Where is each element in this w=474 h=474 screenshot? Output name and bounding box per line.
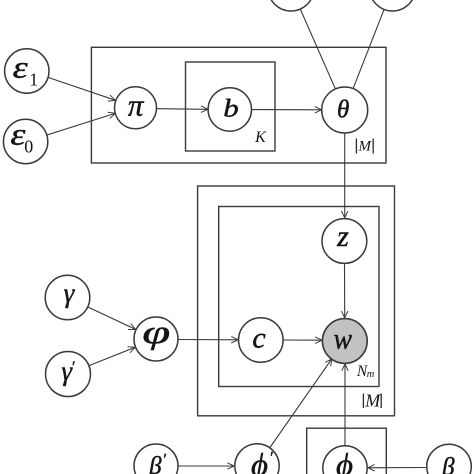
- svg-text:z: z: [336, 220, 349, 253]
- edge pi to b: [157, 108, 208, 111]
- edge theta to z: [344, 133, 346, 218]
- node theta: [322, 87, 368, 133]
- svg-text:b: b: [223, 96, 239, 123]
- node eps1: [5, 49, 49, 93]
- edge varphi to c: [178, 339, 238, 341]
- svg-text:m: m: [367, 369, 375, 380]
- plate top (|M| plate around pi,b,theta): [91, 47, 386, 163]
- svg-text:K: K: [254, 129, 267, 146]
- node gamma: [45, 275, 90, 320]
- label Nm: [356, 363, 375, 380]
- node eps0: [3, 116, 47, 163]
- svg-text:′: ′: [269, 449, 273, 466]
- svg-text:0: 0: [24, 136, 33, 156]
- node phi: [323, 446, 367, 474]
- svg-text:M: M: [364, 390, 381, 410]
- edge top circle B to theta: [353, 9, 384, 88]
- node top circle B (clipped): [370, 0, 416, 11]
- node gamma-prime: [46, 352, 91, 397]
- svg-text:ε: ε: [13, 50, 29, 85]
- edge top circle A to theta: [300, 9, 335, 89]
- edge gamma-prime to varphi: [88, 347, 134, 366]
- edge beta to phi: [368, 467, 426, 469]
- svg-text:w: w: [334, 323, 353, 356]
- edge c to w: [283, 339, 321, 341]
- edge gamma to varphi: [87, 307, 135, 330]
- svg-text:ϕ: ϕ: [251, 446, 268, 474]
- svg-text:1: 1: [29, 69, 38, 89]
- edge phi to w: [344, 364, 346, 446]
- edge eps1 to pi: [47, 77, 115, 100]
- node pi: [115, 87, 157, 129]
- svg-text:β: β: [441, 454, 455, 474]
- svg-text:π: π: [128, 88, 145, 123]
- node beta: [427, 444, 472, 474]
- svg-text:θ: θ: [337, 97, 349, 124]
- svg-text:φ: φ: [142, 315, 170, 351]
- plate bottom (around phi): [307, 428, 387, 474]
- node top circle A (clipped): [268, 0, 314, 11]
- svg-text:′: ′: [162, 451, 166, 468]
- plate middle inner (Nm): [219, 207, 379, 387]
- edge beta-prime to phi-prime: [178, 465, 234, 467]
- plate middle outer (|M|): [198, 186, 395, 416]
- label |M| middle plate: [363, 390, 381, 410]
- svg-text:′: ′: [71, 359, 75, 376]
- node phi-prime: [235, 444, 279, 474]
- node c: [238, 318, 283, 363]
- node z: [322, 219, 367, 264]
- svg-text:c: c: [252, 322, 265, 355]
- edge eps0 to pi: [46, 113, 115, 135]
- svg-text:M: M: [358, 138, 373, 154]
- edge z to w: [344, 264, 346, 318]
- node beta-prime: [134, 444, 178, 474]
- label |M| top plate: [356, 138, 373, 154]
- plate K (around b): [186, 62, 276, 151]
- edge phi-prime to w: [270, 359, 332, 448]
- svg-text:ϕ: ϕ: [336, 446, 353, 474]
- node b: [208, 88, 251, 131]
- svg-text:β: β: [148, 453, 162, 474]
- node varphi: [134, 315, 178, 361]
- svg-text:γ: γ: [64, 278, 76, 308]
- node w (observed, shaded): [322, 319, 367, 364]
- edge b to theta: [252, 109, 322, 111]
